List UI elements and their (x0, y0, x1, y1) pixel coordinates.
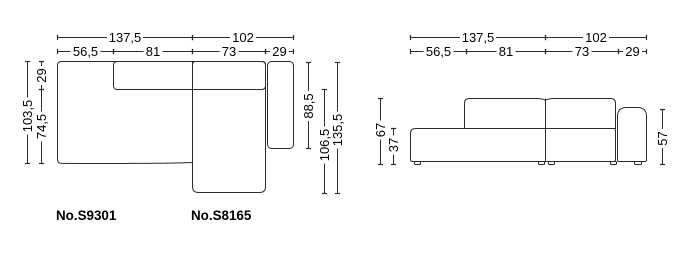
svg-text:103,5: 103,5 (20, 100, 35, 133)
svg-text:56,5: 56,5 (426, 44, 451, 59)
svg-text:29: 29 (272, 44, 286, 59)
svg-text:74,5: 74,5 (34, 114, 49, 139)
svg-text:67: 67 (373, 123, 388, 137)
svg-text:135,5: 135,5 (330, 114, 345, 147)
svg-text:73: 73 (575, 44, 589, 59)
svg-text:88,5: 88,5 (301, 93, 316, 118)
svg-text:No.S8165: No.S8165 (191, 208, 252, 223)
svg-text:29: 29 (34, 68, 49, 82)
svg-text:56,5: 56,5 (73, 44, 98, 59)
svg-text:137,5: 137,5 (109, 30, 142, 45)
svg-text:81: 81 (499, 44, 513, 59)
svg-text:73: 73 (222, 44, 236, 59)
svg-text:102: 102 (232, 30, 254, 45)
svg-text:29: 29 (625, 44, 639, 59)
svg-text:81: 81 (146, 44, 160, 59)
svg-text:102: 102 (585, 30, 607, 45)
svg-text:57: 57 (655, 131, 670, 145)
svg-text:137,5: 137,5 (462, 30, 495, 45)
svg-text:No.S9301: No.S9301 (56, 208, 117, 223)
svg-text:37: 37 (386, 138, 401, 152)
